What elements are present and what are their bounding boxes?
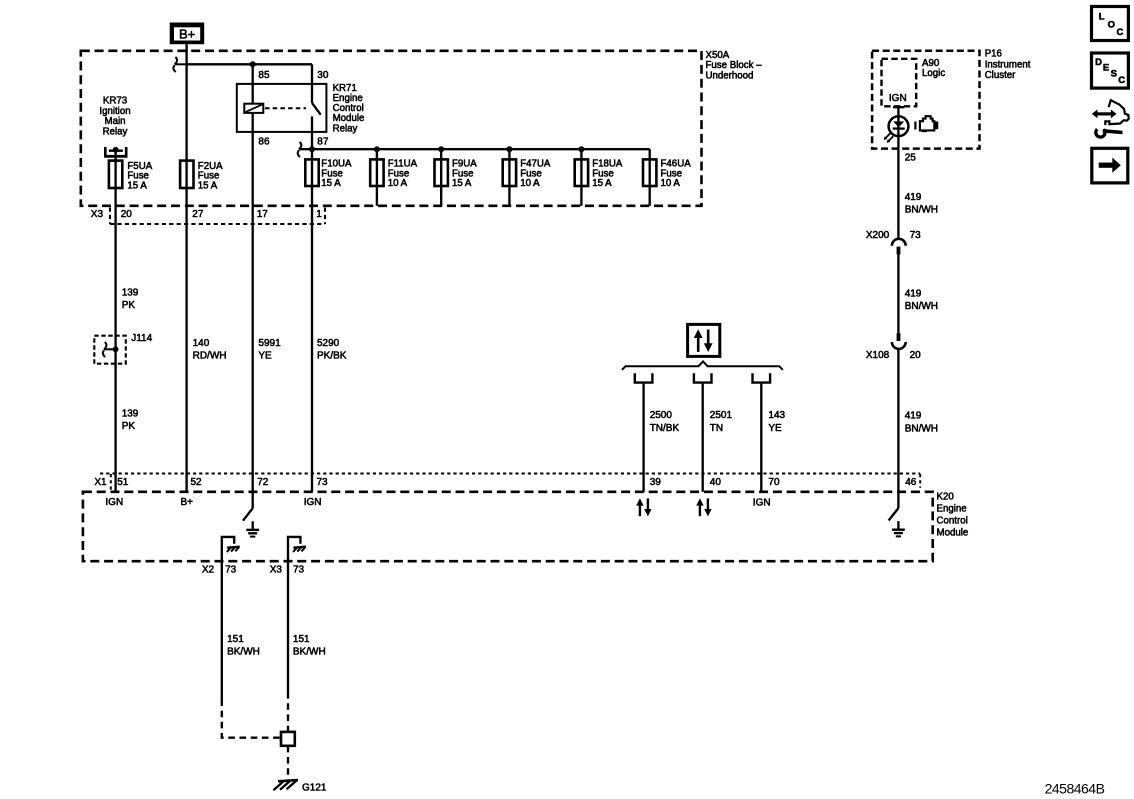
B+ power symbol bbox=[170, 23, 205, 45]
wire 143 YE bbox=[760, 383, 762, 492]
svg-text:73: 73 bbox=[293, 565, 305, 576]
svg-text:151: 151 bbox=[293, 634, 310, 645]
X50A fuse block label bbox=[706, 50, 763, 81]
node pin 85 branch bbox=[250, 61, 256, 67]
svg-text:15 A: 15 A bbox=[452, 178, 472, 189]
node 87 bus bbox=[309, 146, 315, 152]
svg-text:Instrument: Instrument bbox=[985, 59, 1031, 70]
wire 151 BK/WH right bbox=[287, 561, 289, 692]
svg-text:C: C bbox=[1118, 75, 1125, 86]
wire 151 left dashed segment bbox=[222, 699, 281, 737]
svg-text:S: S bbox=[1111, 68, 1117, 79]
fuse F9UA bbox=[440, 149, 442, 206]
svg-text:30: 30 bbox=[317, 70, 329, 81]
svg-text:419: 419 bbox=[905, 288, 922, 299]
wire label 139 PK lower bbox=[122, 408, 139, 432]
switch blade pin 72 bbox=[243, 508, 253, 520]
wire pin 72 internal bbox=[252, 492, 254, 509]
switch blade pin 46 bbox=[889, 508, 899, 520]
svg-text:15 A: 15 A bbox=[592, 178, 612, 189]
F18UA label bbox=[592, 158, 623, 189]
fuse F46UA bbox=[649, 149, 651, 206]
node F18UA bbox=[578, 146, 584, 152]
svg-text:2500: 2500 bbox=[650, 410, 673, 421]
fuse F2UA bbox=[180, 161, 193, 188]
svg-text:2458464B: 2458464B bbox=[1045, 780, 1105, 796]
fuse bus 87 bbox=[299, 148, 650, 150]
internal ground link X3 bbox=[288, 537, 300, 561]
svg-text:IGN: IGN bbox=[105, 497, 123, 508]
svg-text:25: 25 bbox=[905, 153, 917, 164]
svg-text:15 A: 15 A bbox=[321, 178, 341, 189]
svg-text:419: 419 bbox=[905, 411, 922, 422]
wire 419 X200 to X108 bbox=[897, 254, 899, 333]
svg-text:Relay: Relay bbox=[103, 126, 128, 137]
wire A90 to lamp bbox=[897, 107, 899, 149]
F2UA label bbox=[198, 161, 223, 192]
connector J114 bbox=[94, 336, 126, 364]
fuse F47UA bbox=[508, 149, 510, 206]
P16 label bbox=[985, 49, 1031, 82]
svg-text:70: 70 bbox=[768, 477, 780, 488]
F47UA label bbox=[520, 158, 551, 189]
svg-text:X2: X2 bbox=[202, 565, 215, 576]
wire 87 to pin 1 (5290) bbox=[311, 116, 313, 491]
fuse F11UA bbox=[376, 149, 378, 206]
svg-text:46: 46 bbox=[905, 477, 917, 488]
F9UA label bbox=[452, 158, 477, 189]
wire label 2501 TN bbox=[710, 410, 733, 434]
relay KR71 box bbox=[237, 84, 327, 132]
wire label 139 PK upper bbox=[122, 287, 139, 311]
fuse F5UA bbox=[109, 161, 122, 188]
svg-text:Module: Module bbox=[937, 527, 969, 538]
svg-text:15 A: 15 A bbox=[198, 180, 218, 191]
svg-text:73: 73 bbox=[225, 565, 237, 576]
node F9UA bbox=[438, 146, 444, 152]
terminal pin 70 bbox=[753, 373, 771, 382]
svg-text:Control: Control bbox=[937, 515, 968, 526]
wire 419 pin 25 to X200 bbox=[897, 149, 899, 239]
svg-text:BN/WH: BN/WH bbox=[905, 301, 938, 312]
A90 logic box bbox=[882, 59, 917, 107]
svg-text:Underhood: Underhood bbox=[706, 70, 754, 81]
svg-text:B+: B+ bbox=[181, 497, 194, 508]
svg-text:Engine: Engine bbox=[937, 504, 967, 515]
svg-text:73: 73 bbox=[317, 477, 329, 488]
internal ground link X2 bbox=[222, 537, 234, 561]
svg-text:5991: 5991 bbox=[258, 338, 281, 349]
svg-text:O: O bbox=[1108, 20, 1115, 31]
svg-text:73: 73 bbox=[910, 230, 922, 241]
wire label 419 BN/WH upper bbox=[905, 192, 938, 216]
svg-text:51: 51 bbox=[117, 477, 129, 488]
K20 engine control module box bbox=[83, 492, 933, 561]
svg-text:X200: X200 bbox=[866, 230, 890, 241]
svg-text:5290: 5290 bbox=[317, 338, 340, 349]
svg-text:1: 1 bbox=[316, 209, 322, 220]
wire label 419 BN/WH middle bbox=[905, 288, 938, 312]
svg-text:Logic: Logic bbox=[922, 68, 945, 79]
fuse F10UA bbox=[305, 159, 318, 186]
svg-text:X1: X1 bbox=[94, 477, 107, 488]
svg-text:J114: J114 bbox=[131, 333, 152, 344]
svg-text:139: 139 bbox=[122, 287, 139, 298]
svg-text:87: 87 bbox=[317, 137, 329, 148]
svg-text:IGN: IGN bbox=[753, 497, 771, 508]
F11UA label bbox=[388, 158, 418, 189]
svg-text:140: 140 bbox=[193, 338, 210, 349]
connector X200 bbox=[892, 239, 906, 255]
svg-text:17: 17 bbox=[257, 209, 269, 220]
ground symbol pin 72 bbox=[246, 521, 259, 536]
connector X3 row of fuse block bbox=[110, 208, 325, 225]
svg-text:86: 86 bbox=[258, 137, 270, 148]
svg-text:Cluster: Cluster bbox=[985, 70, 1016, 81]
A90 label bbox=[922, 58, 945, 79]
svg-text:PK: PK bbox=[122, 421, 136, 432]
lamp LED symbol bbox=[884, 121, 905, 142]
svg-text:10 A: 10 A bbox=[661, 178, 681, 189]
wire label 5290 PK/BK bbox=[317, 338, 347, 362]
wire KR73 to F5UA fuse (139) bbox=[114, 150, 116, 492]
KR73 relay contact symbol bbox=[104, 147, 128, 156]
ground symbol pin 46 bbox=[892, 521, 905, 536]
engine icon MIL glyph bbox=[914, 116, 937, 131]
svg-text:C: C bbox=[1117, 27, 1124, 38]
connector X1 row of ECM bbox=[100, 474, 920, 492]
wire 86 to pin 17 (5991) bbox=[252, 113, 254, 492]
svg-text:PK: PK bbox=[122, 300, 136, 311]
wire label 140 RD/WH bbox=[193, 338, 227, 362]
terminal bar under A90 bbox=[893, 106, 904, 108]
svg-text:IGN: IGN bbox=[889, 93, 907, 104]
svg-text:151: 151 bbox=[227, 634, 244, 645]
svg-text:BN/WH: BN/WH bbox=[905, 423, 938, 434]
wire bus B+ to relay pin 30 bbox=[187, 63, 312, 65]
icon DESC box bbox=[1092, 53, 1129, 88]
connector curl at 87 fuse bus bbox=[298, 142, 302, 157]
svg-text:20: 20 bbox=[121, 209, 133, 220]
wire 2500 TN/BK bbox=[642, 383, 644, 492]
fuse F18UA bbox=[580, 149, 582, 206]
svg-text:K20: K20 bbox=[937, 492, 955, 503]
chassis ground X3 bbox=[293, 547, 306, 552]
ground G121 bbox=[273, 780, 298, 790]
connector curl at fuse block entry bbox=[173, 57, 186, 72]
wire label 151 BK/WH right bbox=[293, 634, 326, 658]
svg-text:72: 72 bbox=[257, 477, 269, 488]
wire 419 X108 to pin 46 bbox=[897, 349, 899, 508]
wire label 143 YE bbox=[768, 410, 785, 434]
wire 151 BK/WH left bbox=[221, 561, 223, 699]
icon connector-view with wrench bbox=[1092, 100, 1129, 137]
icon LOC box bbox=[1092, 7, 1129, 41]
svg-text:143: 143 bbox=[768, 410, 785, 421]
wire F2UA (140) bbox=[185, 64, 187, 492]
svg-text:139: 139 bbox=[122, 408, 139, 419]
wire pin 85 to coil bbox=[252, 64, 254, 103]
svg-text:Relay: Relay bbox=[333, 123, 358, 134]
svg-text:RD/WH: RD/WH bbox=[193, 351, 227, 362]
node F11UA bbox=[374, 146, 380, 152]
X50A fuse block box bbox=[81, 51, 702, 206]
svg-text:D: D bbox=[1095, 57, 1102, 68]
F10UA label bbox=[321, 158, 352, 189]
P16 instrument cluster box bbox=[872, 51, 979, 149]
indicator lamp MIL bbox=[889, 116, 909, 136]
serial data arrows pin 40 bbox=[696, 498, 711, 516]
serial data arrows pin 39 bbox=[636, 498, 651, 516]
svg-text:27: 27 bbox=[192, 209, 204, 220]
wire 2501 TN bbox=[702, 383, 704, 492]
svg-text:L: L bbox=[1099, 11, 1105, 22]
brace under arrows box bbox=[622, 361, 783, 369]
svg-text:E: E bbox=[1103, 63, 1109, 74]
svg-text:P16: P16 bbox=[985, 49, 1002, 60]
svg-text:YE: YE bbox=[258, 351, 272, 362]
wire label 419 BN/WH lower bbox=[905, 411, 938, 435]
KR71 label bbox=[333, 83, 365, 134]
svg-text:85: 85 bbox=[258, 70, 270, 81]
svg-text:BK/WH: BK/WH bbox=[227, 647, 260, 658]
node F47UA bbox=[506, 146, 512, 152]
F46UA label bbox=[661, 158, 692, 189]
svg-text:G121: G121 bbox=[302, 782, 327, 793]
svg-text:X3: X3 bbox=[270, 565, 283, 576]
terminal pin 40 bbox=[694, 373, 712, 382]
svg-text:40: 40 bbox=[710, 477, 722, 488]
splice S-box bbox=[281, 732, 295, 746]
data link arrows box bbox=[688, 324, 720, 356]
svg-text:39: 39 bbox=[650, 477, 662, 488]
svg-text:B+: B+ bbox=[179, 26, 195, 41]
chassis ground X2 bbox=[227, 547, 240, 552]
wire label 2500 TN/BK bbox=[650, 410, 680, 434]
svg-text:IGN: IGN bbox=[304, 497, 322, 508]
svg-text:20: 20 bbox=[910, 350, 922, 361]
svg-text:15 A: 15 A bbox=[127, 180, 147, 191]
svg-text:52: 52 bbox=[191, 477, 203, 488]
svg-text:YE: YE bbox=[768, 423, 782, 434]
svg-text:TN: TN bbox=[710, 423, 723, 434]
icon forward arrow box bbox=[1092, 148, 1128, 183]
svg-text:PK/BK: PK/BK bbox=[317, 351, 347, 362]
wire label 151 BK/WH left bbox=[227, 634, 260, 658]
relay coil-contact dashed link bbox=[265, 107, 306, 109]
svg-text:BK/WH: BK/WH bbox=[293, 647, 326, 658]
terminal pin 39 bbox=[635, 373, 653, 382]
connector X108 bbox=[892, 333, 906, 349]
svg-text:BN/WH: BN/WH bbox=[905, 205, 938, 216]
svg-text:10 A: 10 A bbox=[388, 178, 408, 189]
relay switch blade bbox=[312, 103, 321, 115]
svg-text:X3: X3 bbox=[91, 209, 104, 220]
K20 label bbox=[937, 492, 969, 539]
svg-text:10 A: 10 A bbox=[520, 178, 540, 189]
wire B+ feed bbox=[185, 44, 187, 64]
wire 151 right dashed segment bbox=[287, 692, 289, 732]
wire label 5991 YE bbox=[258, 338, 281, 362]
svg-text:2501: 2501 bbox=[710, 410, 733, 421]
wire splice to G121 dashed bbox=[287, 746, 289, 780]
F5UA label bbox=[127, 161, 152, 192]
svg-text:X108: X108 bbox=[866, 350, 890, 361]
wire pin 30 to contact bbox=[311, 64, 313, 103]
svg-text:TN/BK: TN/BK bbox=[650, 423, 680, 434]
svg-text:419: 419 bbox=[905, 192, 922, 203]
relay coil bbox=[244, 104, 263, 113]
KR73 label bbox=[99, 96, 130, 138]
